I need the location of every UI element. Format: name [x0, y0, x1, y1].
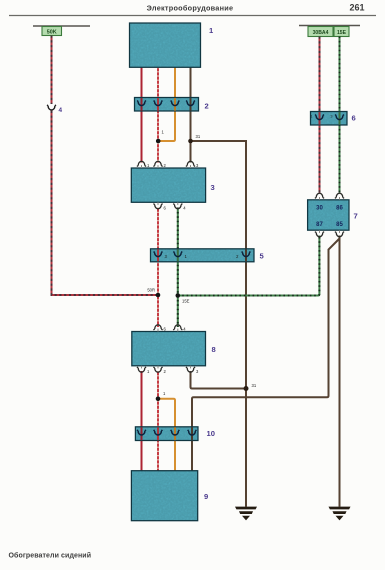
svg-text:15E: 15E [337, 30, 347, 36]
svg-text:4: 4 [183, 206, 186, 211]
svg-text:31: 31 [252, 383, 257, 388]
svg-text:1: 1 [163, 391, 166, 396]
svg-text:3: 3 [211, 183, 215, 192]
svg-text:1: 1 [147, 163, 150, 168]
svg-text:3: 3 [196, 369, 199, 374]
svg-text:261: 261 [349, 3, 364, 13]
svg-text:10: 10 [207, 429, 215, 438]
svg-text:1: 1 [162, 130, 165, 135]
svg-text:3: 3 [196, 163, 199, 168]
svg-text:Обогреватели сидений: Обогреватели сидений [9, 552, 92, 560]
svg-text:2: 2 [164, 369, 167, 374]
svg-text:8: 8 [212, 345, 216, 354]
svg-text:5: 5 [260, 252, 265, 261]
svg-text:4: 4 [183, 327, 186, 332]
svg-text:31: 31 [196, 134, 201, 139]
svg-text:4: 4 [59, 107, 63, 114]
svg-text:2: 2 [164, 163, 167, 168]
svg-text:Электрооборудование: Электрооборудование [147, 4, 234, 13]
svg-text:1: 1 [209, 26, 214, 35]
svg-text:6: 6 [164, 206, 167, 211]
svg-text:6: 6 [164, 327, 167, 332]
svg-text:50K: 50K [47, 30, 57, 36]
svg-text:2: 2 [205, 102, 209, 111]
svg-text:6: 6 [352, 114, 356, 123]
svg-text:30BA4: 30BA4 [313, 30, 329, 36]
svg-text:1: 1 [147, 369, 150, 374]
svg-text:9: 9 [204, 492, 208, 501]
svg-text:7: 7 [354, 212, 358, 221]
svg-text:50R: 50R [147, 288, 155, 293]
svg-text:15E: 15E [182, 299, 190, 304]
